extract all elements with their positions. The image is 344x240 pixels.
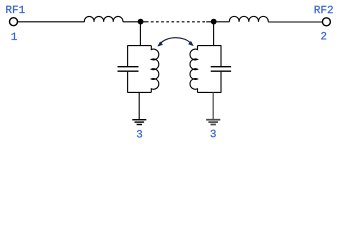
label 2 [321,32,326,39]
wire tank2 to ground [212,92,214,119]
tank1 top bar [127,45,151,47]
label 3 (right) [211,130,216,137]
label 3 (left) [137,130,142,137]
ground (left, node 3) [132,119,146,121]
inductor L2 [229,16,268,21]
label 1 [12,33,17,40]
capacitor C2 top lead [220,46,222,67]
port P1 RF1 [10,18,18,26]
tank2 bottom bar [198,91,222,93]
coupling arrowhead right [189,41,194,45]
label RF1 [6,6,24,13]
wire tank1 to ground [138,92,140,119]
inductor L1 [84,16,123,21]
wire L1 to node [123,21,141,23]
capacitor C1 bottom lead [127,72,129,93]
junction node (left) [138,19,144,25]
wire coupling stub right [206,21,213,23]
inductor L4 coil (right tank) [190,46,197,93]
wire node down to tank2 [213,22,215,46]
capacitor C2 plates [211,66,231,68]
ground (right, node 3) [206,119,220,121]
wire P1 to L1 [18,21,85,23]
coupling arrowhead left [158,42,163,46]
capacitor C1 plates [118,66,139,68]
port P2 RF2 [322,18,330,26]
inductor L3 coil (left tank) [151,46,158,93]
wire coupling stub left [141,21,149,23]
mutual coupling arrow arc [160,38,191,44]
wire node down to tank1 [139,22,141,46]
capacitor C1 top lead [127,46,129,67]
capacitor C2 bottom lead [220,72,222,93]
junction node (right) [211,19,217,25]
wire dashed coupling [148,21,206,23]
tank1 bottom bar [127,91,151,93]
label RF2 [315,6,333,13]
wire node to L2 [214,21,230,23]
wire L2 to P2 [268,21,322,23]
tank2 top bar [198,45,222,47]
